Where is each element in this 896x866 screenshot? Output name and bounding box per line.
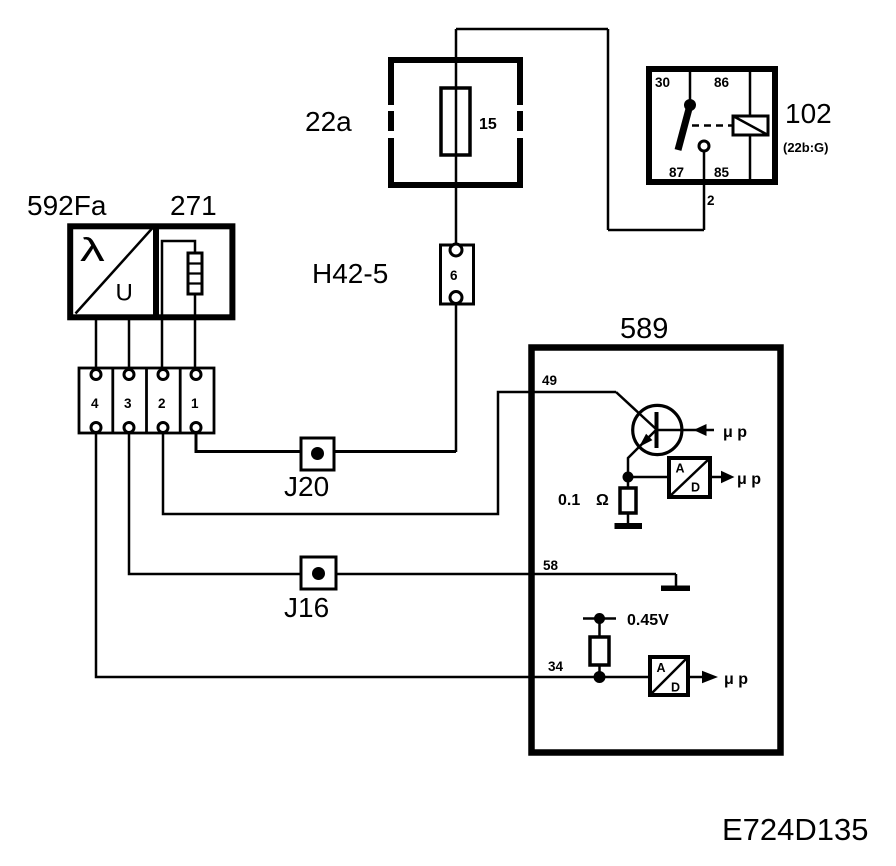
arrow into transistor bbox=[694, 424, 707, 436]
svg-text:μ p: μ p bbox=[737, 471, 761, 488]
wire junction to shunt resistor bbox=[627, 477, 630, 488]
svg-text:6: 6 bbox=[450, 268, 458, 283]
label terminal 49 bbox=[542, 373, 557, 388]
svg-text:λ: λ bbox=[80, 231, 105, 268]
relay coil 86 lead bbox=[749, 69, 752, 116]
splice J16 bbox=[301, 557, 336, 589]
wire 271 bottom bbox=[194, 294, 197, 370]
label pin 86 bbox=[714, 75, 730, 90]
svg-text:589: 589 bbox=[620, 313, 668, 345]
svg-text:E724D135: E724D135 bbox=[722, 812, 869, 847]
arrowhead A/D 2 output bbox=[702, 671, 718, 684]
label 271 bbox=[170, 190, 217, 221]
label pin 4 bbox=[91, 396, 99, 411]
wire supply to resistor bbox=[598, 619, 601, 638]
svg-text:J16: J16 bbox=[284, 592, 329, 623]
svg-text:H42-5: H42-5 bbox=[312, 258, 388, 289]
svg-text:86: 86 bbox=[714, 75, 730, 90]
svg-text:μ p: μ p bbox=[724, 671, 748, 688]
relay dashed actuator line bbox=[692, 124, 733, 127]
junction node 34 bbox=[594, 671, 606, 683]
relay switch blade bbox=[678, 105, 690, 150]
wire vertical drop right of fusebox bbox=[607, 29, 610, 230]
label pin 85 bbox=[714, 165, 730, 180]
fusebox 22a border bbox=[388, 57, 523, 188]
label pin 30 bbox=[655, 75, 670, 90]
svg-text:A: A bbox=[657, 661, 666, 675]
wire pin1 to J20 to H42-5 bbox=[196, 432, 456, 452]
wire sensor pin a bbox=[95, 317, 98, 370]
label terminal 34 bbox=[548, 659, 564, 674]
wire A/D 1 output bbox=[710, 476, 721, 479]
label J16 bbox=[284, 592, 329, 623]
emitter arrowhead bbox=[639, 434, 652, 447]
transistor emitter wire bbox=[628, 430, 656, 472]
label 589 bbox=[620, 313, 668, 345]
relay coil 85 lead bbox=[749, 135, 752, 182]
label pin 2 bbox=[158, 396, 166, 411]
svg-text:30: 30 bbox=[655, 75, 670, 90]
label pin 87 bbox=[669, 165, 684, 180]
svg-text:2: 2 bbox=[707, 193, 715, 208]
svg-text:J20: J20 bbox=[284, 471, 329, 502]
label pin 1 bbox=[191, 396, 199, 411]
label J20 bbox=[284, 471, 329, 502]
lambda glyph bbox=[80, 231, 105, 268]
wire resistor to node 34 bbox=[598, 665, 601, 677]
junction node emitter bbox=[623, 472, 634, 483]
label 15 bbox=[479, 116, 497, 133]
fuse 15 symbol bbox=[441, 88, 470, 155]
relay pin 30 lead bbox=[689, 69, 692, 103]
connector top terminals bbox=[91, 370, 201, 380]
label mu-p collector bbox=[723, 424, 747, 441]
splice J20 bbox=[301, 438, 334, 470]
svg-text:μ p: μ p bbox=[723, 424, 747, 441]
svg-text:3: 3 bbox=[124, 396, 132, 411]
svg-text:0.1: 0.1 bbox=[558, 492, 580, 509]
svg-text:34: 34 bbox=[548, 659, 564, 674]
transistor base wire diagonal bbox=[616, 392, 656, 429]
svg-text:U: U bbox=[116, 280, 133, 307]
label mu-p A/D 1 bbox=[737, 471, 761, 488]
A/D converter U1 bbox=[669, 458, 710, 497]
ground bar internal bbox=[615, 523, 643, 529]
svg-text:Ω: Ω bbox=[596, 492, 609, 509]
relay switch pivot dot bbox=[684, 99, 696, 111]
control unit 589 box bbox=[532, 348, 781, 753]
transistor collector line to microprocessor bbox=[657, 429, 715, 432]
label pin 3 bbox=[124, 396, 132, 411]
label ohm bbox=[596, 492, 609, 509]
svg-text:(22b:G): (22b:G) bbox=[783, 140, 829, 155]
svg-text:49: 49 bbox=[542, 373, 557, 388]
label 102 bbox=[785, 98, 832, 129]
wire pin4 to terminal 34 bbox=[96, 432, 649, 677]
relay 102 box bbox=[649, 69, 775, 182]
connector strip bbox=[79, 368, 214, 433]
svg-text:1: 1 bbox=[191, 396, 199, 411]
pullup resistor bbox=[590, 637, 609, 665]
wire pin2 to terminal 49 bbox=[163, 392, 616, 514]
svg-text:D: D bbox=[671, 681, 680, 695]
supply node dot bbox=[594, 613, 605, 624]
diagonal in 592Fa cell bbox=[76, 228, 153, 314]
label (22b:G) bbox=[783, 140, 829, 155]
ground terminal 58 bbox=[661, 574, 690, 591]
svg-text:0.45V: 0.45V bbox=[627, 612, 669, 629]
svg-text:2: 2 bbox=[158, 396, 166, 411]
transistor Q1 bbox=[633, 405, 682, 454]
supply 0.45V bar bbox=[583, 617, 616, 620]
wire resistor to ground bbox=[627, 513, 630, 524]
wire A/D 2 output bbox=[688, 676, 703, 679]
resistor 0.1 ohm bbox=[620, 488, 636, 513]
svg-text:271: 271 bbox=[170, 190, 217, 221]
label H42-5 bbox=[312, 258, 388, 289]
svg-text:87: 87 bbox=[669, 165, 684, 180]
wire 271 top loop bbox=[162, 241, 195, 370]
label U bbox=[116, 280, 133, 307]
label 6 bbox=[450, 268, 458, 283]
label 22a bbox=[305, 106, 352, 137]
wire emitter to A/D 1 bbox=[628, 476, 668, 479]
heater resistor 271 bbox=[188, 253, 202, 294]
arrowhead A/D 1 output bbox=[721, 471, 735, 484]
svg-text:85: 85 bbox=[714, 165, 730, 180]
wire pin3 to J16 to terminal 58 bbox=[129, 432, 676, 574]
label 0.1 bbox=[558, 492, 580, 509]
svg-text:15: 15 bbox=[479, 116, 497, 133]
svg-text:D: D bbox=[691, 481, 700, 495]
svg-text:102: 102 bbox=[785, 98, 832, 129]
label terminal 58 bbox=[543, 558, 559, 573]
connector bottom terminals bbox=[91, 423, 201, 433]
connector H42-5 pin 6 bbox=[441, 244, 474, 304]
wire horizontal to relay pin 2 bbox=[608, 229, 704, 232]
drawing number E724D135 bbox=[722, 812, 869, 847]
label 0.45V bbox=[627, 612, 669, 629]
wire from fuse top to relay branch (top horizontal) bbox=[456, 28, 608, 31]
label pin 2 bbox=[707, 193, 715, 208]
A/D converter U2 bbox=[650, 657, 688, 695]
svg-text:592Fa: 592Fa bbox=[27, 190, 107, 221]
svg-text:4: 4 bbox=[91, 396, 99, 411]
svg-text:A: A bbox=[676, 462, 685, 476]
label mu-p A/D 2 bbox=[724, 671, 748, 688]
lambda sensor 592Fa box bbox=[70, 224, 232, 321]
wire relay pin 2 vertical bbox=[703, 152, 706, 230]
svg-text:22a: 22a bbox=[305, 106, 352, 137]
relay contact circle bbox=[699, 141, 709, 151]
wire into H42-5 connector bbox=[455, 305, 458, 452]
label 592Fa bbox=[27, 190, 107, 221]
wire sensor pin b bbox=[128, 317, 131, 370]
svg-text:58: 58 bbox=[543, 558, 559, 573]
relay coil bbox=[733, 116, 768, 135]
wire fuse vertical through fusebox bbox=[455, 29, 458, 245]
